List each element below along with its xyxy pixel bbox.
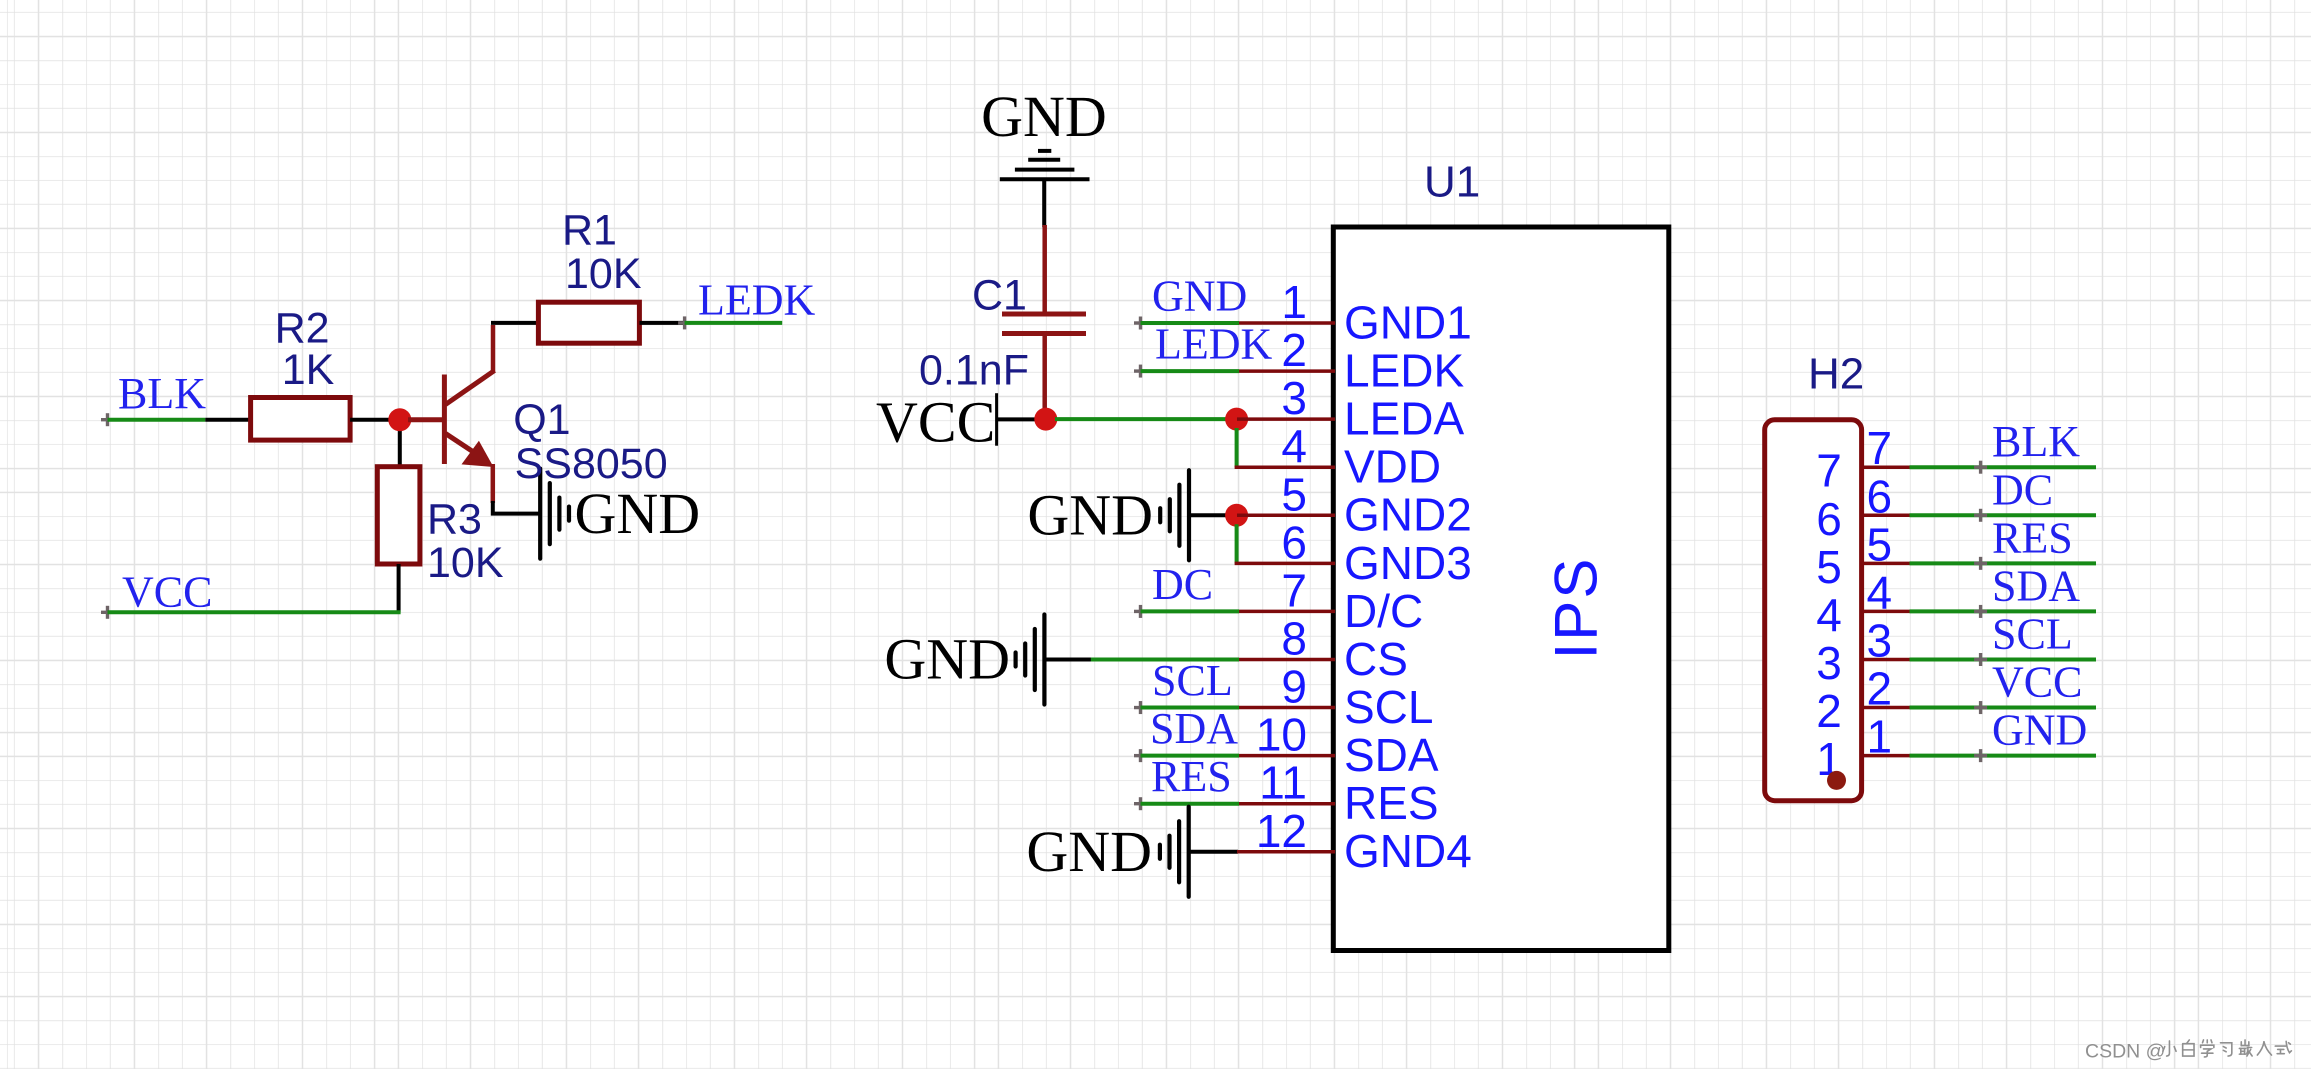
svg-text:LEDK: LEDK bbox=[1344, 344, 1464, 396]
svg-text:6: 6 bbox=[1281, 516, 1307, 568]
svg-text:1: 1 bbox=[1281, 276, 1307, 328]
svg-text:2: 2 bbox=[1867, 663, 1893, 715]
svg-text:RES: RES bbox=[1992, 513, 2073, 562]
svg-text:10K: 10K bbox=[427, 539, 504, 587]
svg-text:BLK: BLK bbox=[1992, 417, 2080, 466]
svg-text:R3: R3 bbox=[427, 495, 482, 543]
svg-text:DC: DC bbox=[1152, 560, 1213, 609]
svg-text:6: 6 bbox=[1816, 493, 1842, 545]
svg-text:7: 7 bbox=[1867, 422, 1893, 474]
svg-text:RES: RES bbox=[1151, 752, 1232, 801]
svg-text:SDA: SDA bbox=[1992, 561, 2080, 610]
svg-text:6: 6 bbox=[1867, 470, 1893, 522]
svg-text:SCL: SCL bbox=[1992, 609, 2073, 658]
svg-text:SDA: SDA bbox=[1150, 704, 1238, 753]
svg-text:1K: 1K bbox=[282, 346, 335, 394]
svg-text:VDD: VDD bbox=[1344, 441, 1441, 493]
svg-text:11: 11 bbox=[1259, 757, 1307, 809]
svg-text:8: 8 bbox=[1281, 612, 1307, 664]
svg-text:LEDA: LEDA bbox=[1344, 393, 1464, 445]
svg-text:1: 1 bbox=[1867, 711, 1893, 763]
svg-text:GND2: GND2 bbox=[1344, 489, 1472, 541]
svg-text:SCL: SCL bbox=[1152, 656, 1233, 705]
svg-text:U1: U1 bbox=[1424, 157, 1480, 206]
svg-text:VCC: VCC bbox=[122, 568, 212, 617]
svg-text:3: 3 bbox=[1281, 372, 1307, 424]
svg-text:4: 4 bbox=[1281, 420, 1307, 472]
svg-text:SS8050: SS8050 bbox=[515, 440, 668, 488]
svg-text:CS: CS bbox=[1344, 633, 1408, 685]
svg-text:LEDK: LEDK bbox=[698, 276, 816, 325]
svg-text:C1: C1 bbox=[972, 272, 1027, 320]
svg-text:VCC: VCC bbox=[876, 389, 995, 454]
svg-text:D/C: D/C bbox=[1344, 585, 1423, 637]
svg-text:GND3: GND3 bbox=[1344, 537, 1472, 589]
svg-text:GND: GND bbox=[1027, 482, 1153, 547]
svg-text:VCC: VCC bbox=[1992, 658, 2082, 707]
svg-text:3: 3 bbox=[1816, 637, 1842, 689]
svg-text:DC: DC bbox=[1992, 465, 2053, 514]
svg-text:GND: GND bbox=[884, 627, 1010, 692]
svg-text:R2: R2 bbox=[275, 304, 330, 352]
svg-text:R1: R1 bbox=[562, 206, 617, 254]
svg-text:2: 2 bbox=[1281, 324, 1307, 376]
svg-text:GND: GND bbox=[981, 84, 1107, 149]
svg-text:GND: GND bbox=[1152, 272, 1247, 321]
svg-text:3: 3 bbox=[1867, 614, 1893, 666]
svg-text:Q1: Q1 bbox=[513, 396, 570, 444]
svg-text:SCL: SCL bbox=[1344, 681, 1433, 733]
svg-text:H2: H2 bbox=[1808, 349, 1864, 398]
svg-text:0.1nF: 0.1nF bbox=[919, 346, 1029, 394]
svg-text:LEDK: LEDK bbox=[1155, 319, 1273, 368]
svg-text:SDA: SDA bbox=[1344, 729, 1439, 781]
svg-text:10: 10 bbox=[1256, 709, 1307, 761]
svg-text:4: 4 bbox=[1867, 566, 1893, 618]
svg-text:GND: GND bbox=[575, 481, 701, 546]
svg-text:GND: GND bbox=[1026, 819, 1152, 884]
svg-text:GND4: GND4 bbox=[1344, 825, 1472, 877]
svg-text:2: 2 bbox=[1816, 685, 1842, 737]
svg-text:BLK: BLK bbox=[118, 369, 206, 418]
svg-text:RES: RES bbox=[1344, 777, 1439, 829]
svg-text:5: 5 bbox=[1816, 541, 1842, 593]
svg-text:GND: GND bbox=[1992, 706, 2087, 755]
svg-text:CSDN @: CSDN @ bbox=[2085, 1041, 2165, 1063]
svg-text:IPS: IPS bbox=[1543, 557, 1610, 660]
svg-text:10K: 10K bbox=[565, 250, 642, 298]
svg-text:12: 12 bbox=[1256, 805, 1307, 857]
svg-text:9: 9 bbox=[1281, 661, 1307, 713]
svg-text:5: 5 bbox=[1867, 518, 1893, 570]
svg-text:4: 4 bbox=[1816, 589, 1842, 641]
svg-text:GND1: GND1 bbox=[1344, 296, 1472, 348]
svg-text:5: 5 bbox=[1281, 468, 1307, 520]
svg-text:7: 7 bbox=[1816, 445, 1842, 497]
svg-text:7: 7 bbox=[1281, 564, 1307, 616]
